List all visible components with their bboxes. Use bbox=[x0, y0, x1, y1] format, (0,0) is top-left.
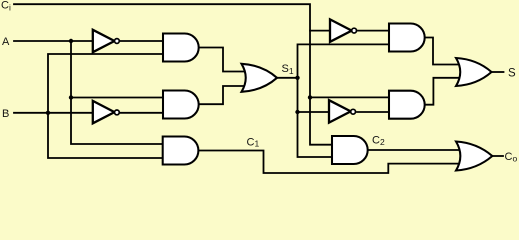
wire net A: vertical drop and into AND3 top input bbox=[71, 41, 163, 144]
AND gate AND1 (A'·B) bbox=[163, 34, 199, 62]
wire AND6 output to OR2 bottom input bbox=[423, 78, 462, 105]
OR gate OR1 (S1) bbox=[242, 64, 278, 92]
inverter INV3 (Ci') triangle bbox=[330, 19, 352, 41]
svg-text:S: S bbox=[508, 67, 516, 79]
wire S1 branch to inverter INV4 bbox=[298, 111, 331, 113]
inverter INV2 bubble bbox=[115, 110, 120, 115]
junction dot node S1 bbox=[295, 76, 299, 80]
AND gate AND4 (C2 = S1·Ci) bbox=[332, 136, 368, 164]
wire inverter INV1 output to AND1 top input bbox=[119, 40, 163, 42]
svg-text:Co: Co bbox=[505, 151, 518, 163]
wire AND2 output to OR1 bottom input bbox=[198, 86, 249, 104]
inverter INV2 (B') triangle bbox=[93, 101, 115, 123]
svg-text:B: B bbox=[2, 108, 9, 120]
wire A branch to AND2 top input bbox=[71, 97, 163, 99]
wire C1: AND3 output, down, bottom run, up into OR3 bottom input bbox=[198, 151, 462, 174]
svg-text:A: A bbox=[2, 36, 10, 48]
wire inverter INV2 output to AND2 bottom input bbox=[119, 112, 163, 114]
wire Ci branch to inverter INV3 bbox=[310, 30, 331, 32]
AND gate AND5 (S1·Ci') bbox=[389, 24, 425, 52]
wire AND1 output to OR1 top input bbox=[198, 48, 249, 72]
AND gate AND2 (A·B') bbox=[163, 91, 199, 119]
inverter INV4 (S1') triangle bbox=[329, 100, 351, 122]
wire inverter INV4 output to AND6 bottom input bbox=[357, 111, 390, 113]
svg-text:C1: C1 bbox=[247, 137, 260, 149]
inverter INV4 bubble bbox=[351, 109, 356, 114]
junction dot node A split bbox=[69, 39, 73, 43]
OR gate OR2 (S output) bbox=[456, 58, 492, 86]
wire net Ci: top run, vertical drop, into AND4 bbox=[14, 4, 332, 145]
wire Ci branch to AND6 bbox=[310, 96, 390, 98]
wire C2: AND4 output to OR3 top input bbox=[367, 149, 462, 151]
OR gate OR3 (Co = C1 + C2) bbox=[456, 142, 492, 171]
wire OR3 output to Co bbox=[491, 155, 503, 157]
junction dot node B split bbox=[46, 111, 50, 115]
inverter INV1 bubble bbox=[115, 39, 120, 44]
junction dot A branch to AND2 bbox=[69, 95, 73, 99]
wire input B to inverter INV2 bbox=[14, 112, 93, 114]
AND gate AND6 (S1'·Ci) bbox=[389, 91, 425, 119]
junction dot Ci branch to AND6 bbox=[308, 95, 312, 99]
wire OR2 output to S bbox=[491, 71, 504, 73]
AND gate AND3 (C1 = A·B) bbox=[163, 137, 199, 165]
inverter INV3 bubble bbox=[352, 28, 357, 33]
svg-text:C2: C2 bbox=[372, 134, 385, 147]
wire AND5 output to OR2 top input bbox=[423, 38, 462, 65]
wire net S1: top branch to AND5, vertical, bottom into AND4 bbox=[298, 44, 391, 157]
wire OR1 output to node S1 bbox=[276, 77, 298, 79]
junction dot S1 branch to INV4 bbox=[295, 110, 299, 114]
wire inverter INV3 output to AND5 top input bbox=[358, 30, 390, 32]
inverter INV1 (A') triangle bbox=[93, 30, 115, 52]
svg-text:Ci: Ci bbox=[1, 0, 11, 12]
wire input A to inverter INV1 bbox=[14, 40, 93, 42]
wire net B: vertical, to AND1 bottom input and AND3 bottom input bbox=[48, 54, 163, 158]
